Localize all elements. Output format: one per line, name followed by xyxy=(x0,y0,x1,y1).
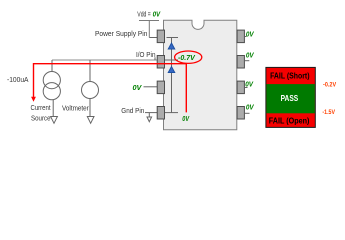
svg-text:FAIL (Open): FAIL (Open) xyxy=(269,117,310,126)
svg-text:-0.2V: -0.2V xyxy=(323,81,337,88)
svg-text:Gnd Pin: Gnd Pin xyxy=(121,108,144,115)
svg-text:Voltmeter: Voltmeter xyxy=(62,105,89,112)
svg-text:0V: 0V xyxy=(246,50,255,59)
svg-text:0V: 0V xyxy=(246,103,255,112)
svg-text:-0.7V: -0.7V xyxy=(178,53,196,62)
svg-text:0V: 0V xyxy=(153,9,161,18)
svg-text:FAIL (Short): FAIL (Short) xyxy=(270,71,310,80)
svg-text:0V: 0V xyxy=(246,29,255,38)
svg-text:Source: Source xyxy=(31,115,51,122)
svg-text:0V: 0V xyxy=(133,83,143,92)
svg-text:PASS: PASS xyxy=(281,93,299,103)
svg-text:Current: Current xyxy=(31,105,51,112)
svg-text:-1.5V: -1.5V xyxy=(322,109,335,116)
svg-text:Vdd =: Vdd = xyxy=(137,11,151,18)
svg-text:0V: 0V xyxy=(182,116,190,123)
svg-text:0V: 0V xyxy=(245,80,254,89)
svg-text:I/O Pin: I/O Pin xyxy=(136,52,156,59)
svg-text:-100uA: -100uA xyxy=(7,75,29,84)
svg-text:Power Supply Pin: Power Supply Pin xyxy=(95,31,148,38)
